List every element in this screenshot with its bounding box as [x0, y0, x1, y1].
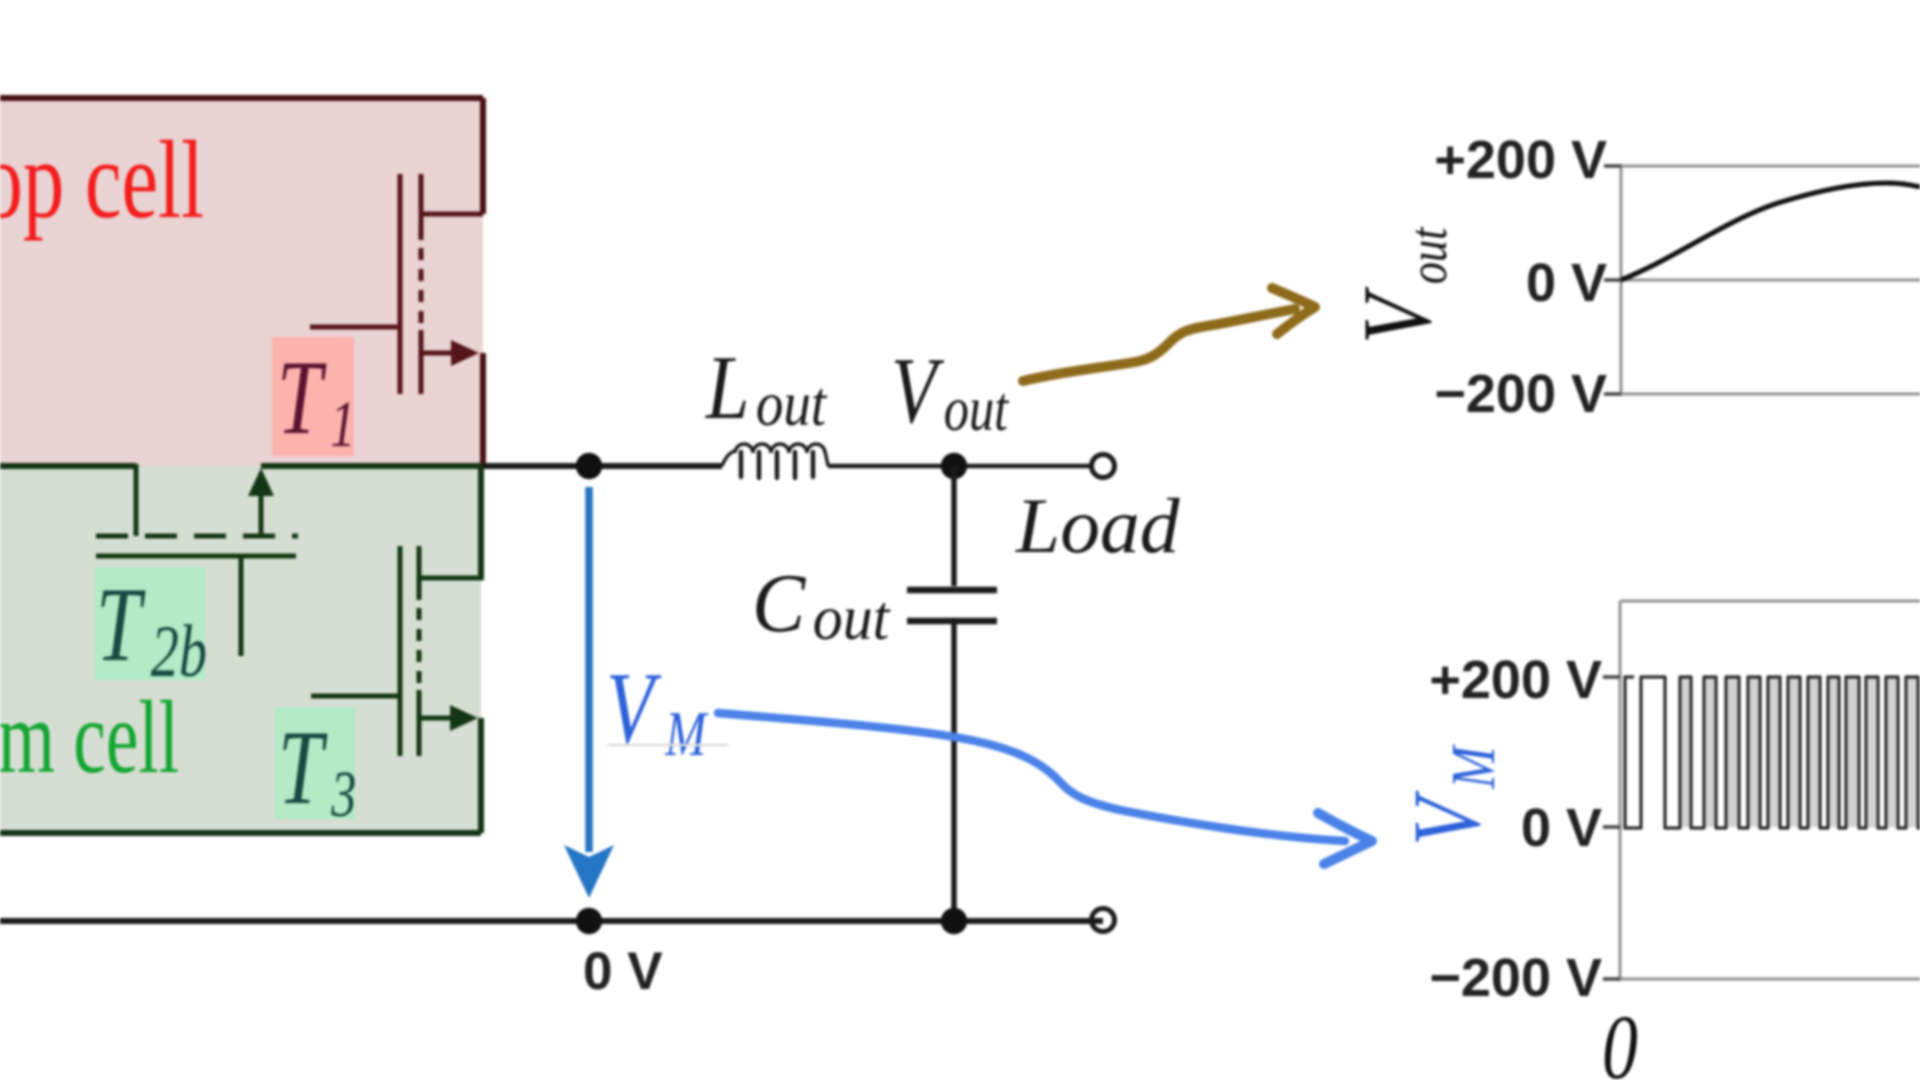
svg-text:Load: Load	[1015, 484, 1180, 570]
label Load	[1015, 484, 1180, 570]
wire output node to inductor	[483, 463, 722, 469]
VM measurement arrow	[564, 487, 614, 898]
VM annotation curve	[718, 713, 1345, 841]
svg-text:0 V: 0 V	[1526, 253, 1607, 313]
label T1	[272, 337, 355, 461]
svg-text:V: V	[606, 651, 662, 764]
ground rail 0V	[0, 918, 1103, 924]
VM pwm gray fills	[1682, 678, 1916, 827]
svg-text:Bottom cell: Bottom cell	[0, 681, 179, 795]
load terminal top	[1092, 455, 1115, 478]
svg-text:Top cell: Top cell	[0, 119, 204, 242]
svg-text:out: out	[813, 584, 891, 654]
bottom cell box	[0, 466, 481, 833]
svg-text:−200 V: −200 V	[1429, 948, 1602, 1008]
node rail left	[576, 908, 602, 934]
svg-text:out: out	[756, 368, 828, 439]
inductor Lout	[722, 444, 828, 478]
svg-text:L: L	[705, 338, 749, 439]
load terminal bottom	[1092, 909, 1115, 932]
label VM (circuit)	[606, 651, 709, 769]
svg-text:M: M	[1439, 744, 1508, 790]
svg-text:out: out	[944, 375, 1009, 445]
svg-text:−200 V: −200 V	[1434, 364, 1607, 424]
node Vout	[941, 453, 967, 479]
top cell box	[0, 98, 483, 466]
capacitor Cout	[907, 466, 997, 921]
label T3	[275, 707, 356, 831]
transistor T1	[310, 174, 483, 394]
svg-text:1: 1	[330, 387, 355, 460]
transistor T3	[311, 546, 484, 756]
label T2b	[95, 567, 207, 693]
VM pwm start bracket	[1625, 677, 1640, 828]
Vout plot ticks	[1604, 166, 1621, 394]
Vout plot frame	[1621, 164, 1920, 396]
wire inductor to Vout terminal	[828, 464, 1103, 469]
svg-text:V: V	[1394, 790, 1500, 846]
VM plot ticks	[1603, 677, 1620, 979]
svg-text:T: T	[277, 340, 327, 457]
label Lout	[705, 338, 827, 439]
svg-text:0 V: 0 V	[1521, 798, 1602, 858]
VM pwm waveform	[1640, 677, 1920, 828]
transistor T2b	[96, 464, 298, 656]
Vout annotation curve	[1023, 309, 1295, 381]
svg-text:0: 0	[1602, 995, 1638, 1080]
svg-text:V: V	[1341, 287, 1451, 344]
svg-text:+200 V: +200 V	[1434, 130, 1607, 190]
svg-text:out: out	[1398, 226, 1458, 284]
svg-text:3: 3	[330, 757, 356, 830]
VM axis label (rotated)	[1394, 744, 1509, 846]
label Vout (circuit)	[891, 339, 1009, 444]
Vout axis label (rotated)	[1341, 226, 1458, 344]
svg-text:V: V	[891, 339, 945, 443]
VM label leader line	[608, 744, 728, 747]
VM plot frame	[1620, 601, 1920, 981]
svg-text:M: M	[664, 699, 709, 770]
svg-text:0 V: 0 V	[583, 942, 663, 1001]
node rail right	[941, 908, 967, 934]
svg-text:+200 V: +200 V	[1429, 650, 1602, 710]
label Cout	[752, 556, 891, 653]
svg-text:C: C	[752, 556, 807, 649]
Vout sine curve	[1621, 183, 1920, 280]
svg-text:T: T	[278, 710, 328, 827]
svg-text:T: T	[96, 567, 146, 684]
svg-text:2b: 2b	[151, 611, 207, 693]
node VM junction	[576, 453, 602, 479]
